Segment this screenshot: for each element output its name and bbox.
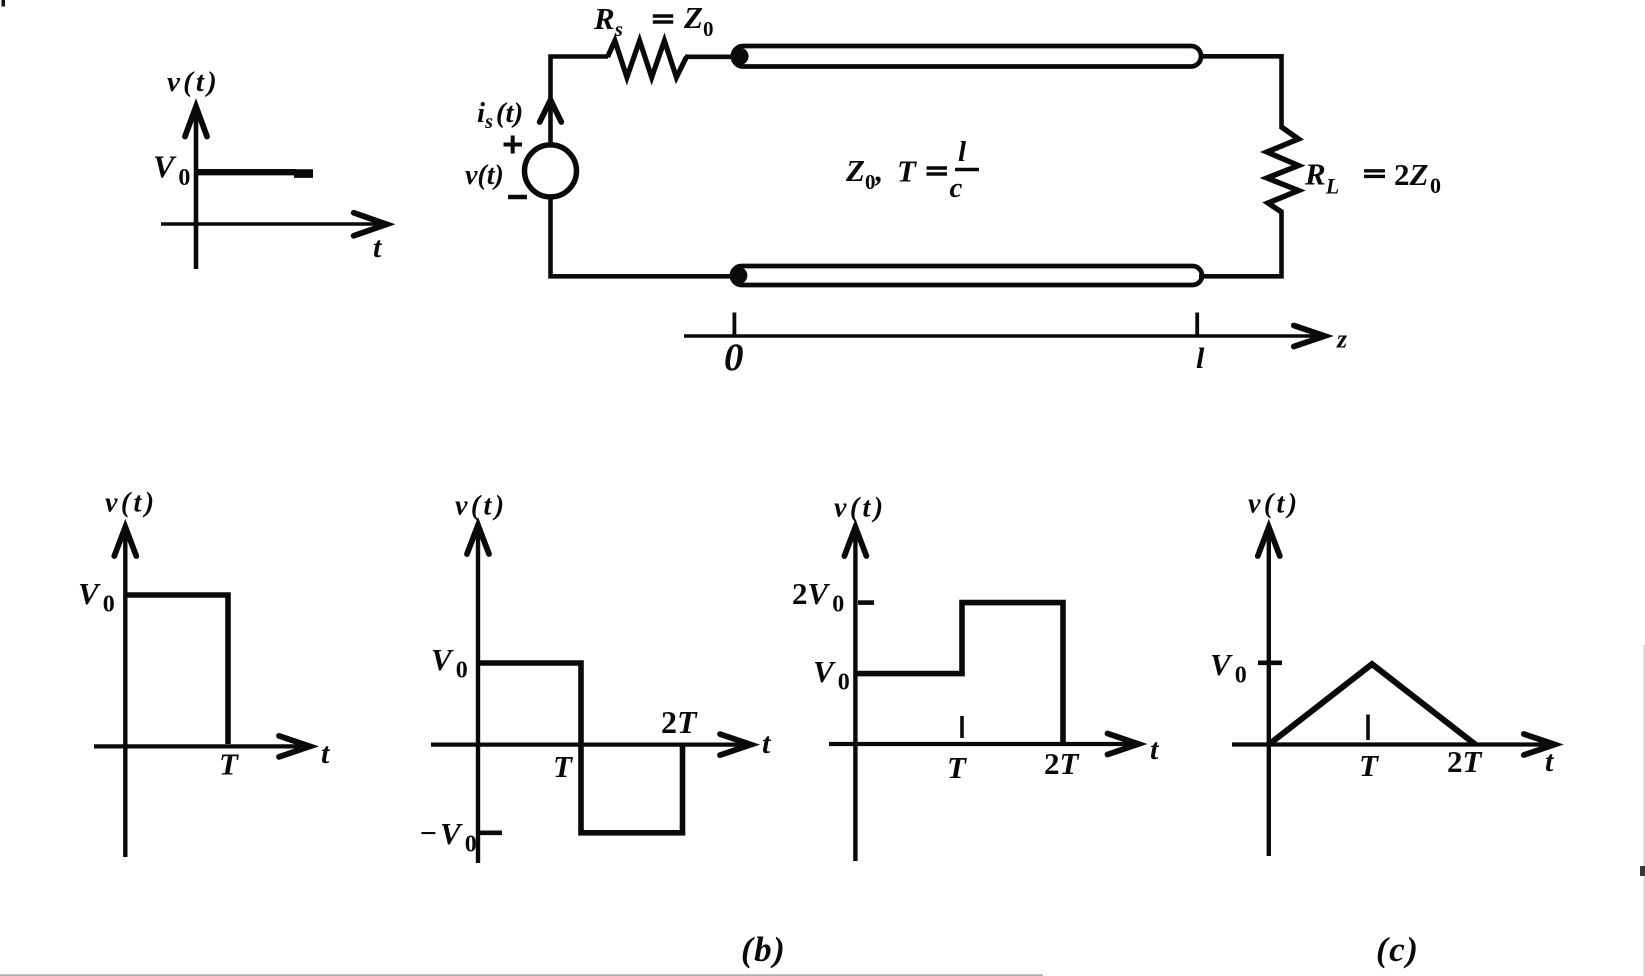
transmission line bottom conductor [732,266,1202,285]
svg-text:Z0,: Z0, [845,153,883,194]
svg-text:v(t): v(t) [105,488,157,519]
z axis line [684,334,1319,338]
svg-text:z: z [1336,325,1348,354]
graph B2 tick -V0 [480,830,502,835]
wire R_L bottom [1199,210,1282,276]
graph C vertical axis [1267,531,1271,856]
svg-text:T: T [553,749,573,784]
graph B1 waveform pulse [125,595,228,744]
scan artifact right edge line [1643,645,1645,976]
svg-text:2T: 2T [1447,744,1483,779]
label + polarity [504,136,523,154]
graph B2 horizontal axis [431,742,745,746]
graph B3 vertical axis [853,531,857,861]
svg-text:l: l [1196,342,1205,375]
graph A waveform end nub [294,169,313,178]
scan artifact top-left corner mark [2,0,6,7]
graph C tick V0 [1258,660,1282,665]
svg-text:l: l [958,136,967,168]
graph B3 tick T [960,716,964,738]
graph B3 horizontal axis [829,742,1132,746]
graph B3 vertical axis arrowhead [844,527,866,556]
graph B2 horizontal axis arrowhead [720,734,751,755]
graph B3 horizontal axis arrowhead [1108,734,1139,755]
svg-text:v(t): v(t) [834,493,886,524]
svg-text:0: 0 [724,336,744,379]
graph B3 tick 2V0 [858,600,874,605]
svg-text:T: T [219,747,239,782]
wire bottom to source [551,197,741,277]
svg-text:v(t): v(t) [455,491,507,522]
graph B1 horizontal axis [94,744,304,748]
wire source top to corner [551,57,609,146]
transmission line bottom left end cap [731,267,748,284]
graph A vertical axis arrowhead [185,107,207,137]
graph A horizontal axis arrowhead [354,213,387,236]
svg-text:T: T [1359,748,1379,783]
svg-text:v(t): v(t) [1248,489,1300,520]
z axis tick 0 [733,313,737,337]
scan artifact bottom edge line [0,974,1043,976]
label - polarity [508,195,527,199]
svg-text:is(t): is(t) [477,97,523,133]
graph B1 vertical axis [123,531,127,857]
fraction bar [955,168,979,171]
graph B1 horizontal axis arrowhead [279,736,310,757]
graph A waveform V0 step line [196,169,296,175]
graph B2 waveform bipolar pulse [478,663,683,833]
svg-text:T: T [947,750,967,785]
graph C waveform triangle [1269,664,1476,744]
svg-text:v(t): v(t) [167,66,220,98]
svg-text:v(t): v(t) [465,160,504,191]
graph A vertical axis v(t) [194,110,199,269]
svg-text:2T: 2T [661,704,698,740]
graph C horizontal axis [1232,742,1548,746]
resistor R_L zigzag [1267,127,1299,212]
wire resistor to transmission line [685,54,740,59]
transmission line top conductor [733,46,1201,67]
wire transmission line to right corner [1199,56,1282,129]
svg-text:−: − [419,817,437,850]
svg-text:2T: 2T [1044,746,1080,781]
voltage source U1 circle [525,145,577,197]
graph A horizontal axis t [161,222,381,226]
svg-text:(c): (c) [1376,930,1419,969]
svg-text:c: c [950,172,963,204]
graph B3 waveform staircase [855,603,1063,742]
z axis tick l [1195,313,1199,337]
graph C vertical axis arrowhead [1258,527,1280,556]
transmission line top left end cap [731,48,748,65]
scan artifact right edge blob [1640,866,1645,876]
svg-text:T: T [897,154,917,189]
graph B2 vertical axis [476,529,480,863]
current arrow is(t) on wire [540,100,562,122]
graph B2 vertical axis arrowhead [467,525,489,554]
graph C tick T [1366,715,1370,741]
resistor R_s zigzag [608,41,687,78]
graph B1 vertical axis arrowhead [114,527,136,556]
svg-text:(b): (b) [741,930,786,969]
z axis arrowhead [1294,326,1325,347]
graph C horizontal axis arrowhead [1524,734,1555,755]
